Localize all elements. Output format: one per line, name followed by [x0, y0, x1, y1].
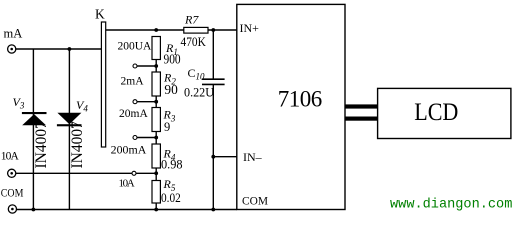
svg-text:R7: R7 [184, 13, 199, 27]
contact 20mA circle [133, 100, 137, 104]
resistor R1 [152, 37, 160, 60]
resistor R7 [184, 27, 208, 33]
svg-text:2mA: 2mA [121, 76, 145, 88]
svg-text:20mA: 20mA [119, 108, 148, 120]
svg-text:IN+: IN+ [240, 21, 260, 35]
wire 2mA contact to chain [137, 65, 156, 67]
junction COM rail / V3 branch [32, 208, 36, 212]
contact 200mA circle [133, 136, 137, 140]
svg-text:9: 9 [164, 120, 170, 134]
junction R4/R5 node [154, 171, 158, 175]
switch K wiper bar [101, 22, 105, 147]
svg-text:COM: COM [242, 194, 268, 208]
svg-text:0.22U: 0.22U [184, 86, 214, 100]
bus bar upper 7106 to LCD [345, 104, 378, 108]
wire top rail from K to R7 [106, 29, 184, 31]
wire 10A contact to chain [136, 172, 156, 174]
wire R4 to R5 [155, 168, 157, 181]
resistor R4 [152, 144, 160, 168]
terminal COM jack [8, 205, 16, 213]
junction C10 branch / IN- tap [211, 155, 215, 159]
wire R3 to R4 [155, 132, 157, 145]
wire 20mA contact to chain [137, 101, 156, 103]
svg-text:IN–: IN– [243, 150, 263, 164]
junction top rail / R1 top [154, 28, 158, 32]
contact 2mA circle [133, 64, 137, 68]
wire R5 bottom to rail [155, 203, 157, 210]
capacitor C10 [202, 79, 225, 84]
junction R5 / COM rail [154, 208, 158, 212]
terminal 10A jack [8, 169, 16, 177]
wire R7 right to IN+ [208, 29, 237, 31]
svg-text:900: 900 [164, 52, 181, 67]
svg-text:mA: mA [4, 27, 23, 41]
svg-text:LCD: LCD [414, 99, 458, 126]
svg-text:200mA: 200mA [111, 143, 147, 157]
svg-text:COM: COM [1, 185, 24, 199]
display LCD box [378, 88, 511, 138]
junction C10 branch / COM rail [211, 208, 215, 212]
svg-text:V4: V4 [76, 98, 88, 114]
junction R2/R3 node [154, 100, 158, 104]
wire R2 to R3 [155, 96, 157, 108]
contact 10A circle [132, 171, 136, 175]
terminal mA jack [8, 45, 16, 53]
svg-text:K: K [95, 7, 105, 22]
svg-text:IN4007: IN4007 [69, 121, 86, 169]
resistor R5 [152, 181, 160, 204]
wire 10A terminal to 10A contact [16, 172, 132, 174]
svg-text:7106: 7106 [278, 86, 323, 111]
wire V3 branch vertical [32, 49, 34, 210]
wire R1 to R2 [155, 60, 157, 73]
junction R1/R2 node [154, 64, 158, 68]
wire IN- tap [213, 156, 237, 158]
svg-text:200UA: 200UA [118, 41, 153, 53]
svg-text:0.98: 0.98 [161, 158, 183, 172]
bus bar lower 7106 to LCD [345, 117, 378, 121]
svg-text:0.02: 0.02 [161, 191, 181, 205]
junction R3/R4 node [154, 136, 158, 140]
svg-text:V3: V3 [13, 95, 25, 111]
svg-text:C10: C10 [188, 66, 206, 82]
wire C10 branch upper [212, 30, 214, 79]
wire C10 branch lower [212, 84, 214, 209]
junction R7 right / C10 branch [211, 28, 215, 32]
wire V4 branch vertical [68, 49, 70, 210]
wire COM bottom rail [17, 209, 237, 211]
svg-text:IN4007: IN4007 [33, 121, 50, 169]
junction mA wire / V4 branch [68, 47, 72, 51]
svg-text:10A: 10A [119, 177, 135, 189]
diode V4 [57, 113, 82, 127]
svg-text:470K: 470K [181, 35, 206, 49]
IC U1 7106 box [237, 4, 345, 209]
diode V3 [22, 112, 47, 125]
svg-text:90: 90 [164, 82, 178, 97]
resistor R3 [152, 108, 160, 132]
resistor R2 [152, 72, 160, 96]
svg-text:10A: 10A [1, 150, 20, 162]
wire mA terminal to switch K [16, 48, 102, 50]
svg-text:www.diangon.com: www.diangon.com [390, 198, 512, 213]
wire 200mA contact to chain [137, 137, 156, 139]
